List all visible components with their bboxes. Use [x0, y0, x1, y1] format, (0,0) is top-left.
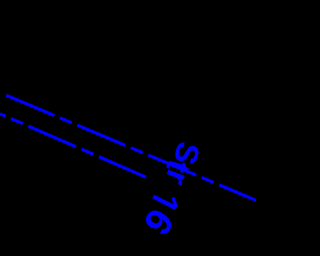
- label 1 (stem): [153, 197, 176, 208]
- label 1 (flag): [173, 197, 176, 207]
- wire: [5, 95, 258, 201]
- wire: [0, 114, 146, 177]
